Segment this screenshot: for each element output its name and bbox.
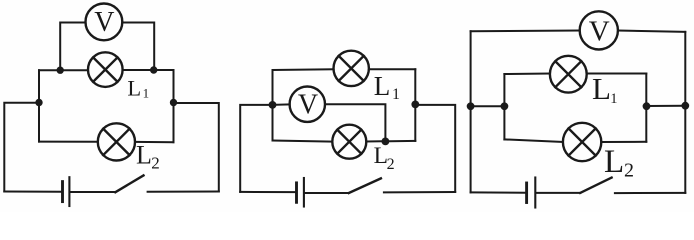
- voltmeter V: [86, 4, 123, 41]
- voltmeter V: [580, 11, 618, 49]
- svg-text:L: L: [136, 140, 152, 169]
- node: on right rail: [681, 102, 689, 110]
- wire: L2 branch right: [135, 141, 174, 143]
- wire: L1 branch right: [587, 73, 647, 75]
- switch S: blade: [349, 178, 381, 193]
- svg-text:L: L: [592, 71, 611, 106]
- wire: bottom left to battery: [4, 191, 60, 193]
- battery cell: short thick plate: [295, 183, 298, 202]
- lamp L2: [563, 123, 601, 161]
- wire: right branch vertical: [414, 69, 416, 141]
- svg-text:2: 2: [624, 159, 634, 181]
- wire: battery to switch: [305, 192, 349, 194]
- battery cell: long thin plate: [303, 178, 305, 207]
- wire: left branch vertical: [503, 74, 505, 139]
- wire: voltmeter branch left: [60, 23, 85, 71]
- svg-text:2: 2: [151, 154, 160, 173]
- wire: L1 branch right: [369, 68, 415, 70]
- wire: voltmeter lead left: [273, 103, 290, 106]
- node: right junction: [170, 99, 177, 106]
- lamp L2: [98, 123, 135, 160]
- svg-text:L: L: [604, 144, 624, 180]
- wire: right rail: [415, 105, 455, 192]
- wire: L2 branch left: [273, 141, 333, 142]
- node: V tap on L2 branch: [382, 138, 390, 146]
- wire: mid wire right: [646, 105, 685, 107]
- wire: left rail: [4, 103, 39, 192]
- svg-text:L: L: [374, 71, 391, 101]
- svg-text:V: V: [94, 7, 114, 38]
- wire: L1 branch left: [39, 69, 88, 71]
- wire: L2 branch left: [504, 139, 563, 142]
- lamp L1: [88, 52, 123, 87]
- wire: battery to switch: [70, 191, 115, 193]
- battery cell: long thin plate: [534, 178, 536, 208]
- wire: L1 branch left: [504, 73, 550, 76]
- lamp L2: [332, 125, 366, 159]
- wire: right rail: [684, 32, 686, 193]
- node: on left branch vertical: [501, 102, 509, 110]
- wire: switch right to right rail: [148, 191, 219, 193]
- wire: voltmeter branch right: [122, 23, 154, 70]
- node: right junction: [411, 101, 419, 109]
- switch S: blade: [115, 175, 143, 192]
- svg-text:V: V: [589, 15, 610, 47]
- wire: L2 branch left: [39, 141, 98, 143]
- node: V left tap on L1 branch: [57, 67, 64, 74]
- node: left junction: [269, 101, 277, 109]
- wire: L2 branch right: [601, 141, 646, 143]
- wire: battery to switch: [536, 192, 580, 194]
- svg-text:2: 2: [387, 156, 395, 173]
- node: on right branch vertical: [643, 102, 651, 110]
- battery cell: short thick plate: [525, 183, 528, 203]
- node: V right tap on L1 branch: [150, 66, 157, 73]
- wire: right rail: [174, 103, 219, 191]
- node: left junction: [35, 99, 42, 106]
- wire: right branch vertical: [173, 70, 175, 142]
- wire: bottom left to battery: [240, 191, 295, 193]
- wire: voltmeter branch left: [471, 30, 580, 33]
- wire: L1 branch left: [273, 68, 334, 71]
- lamp L1: [334, 51, 369, 86]
- wire: left rail: [240, 105, 272, 192]
- wire: bottom left to battery: [471, 191, 525, 193]
- wire: switch right to right rail: [384, 191, 455, 193]
- wire: left branch vertical: [272, 70, 274, 141]
- svg-text:1: 1: [610, 91, 617, 107]
- svg-text:1: 1: [143, 86, 150, 101]
- wire: mid wire left: [471, 105, 505, 107]
- voltmeter V: [290, 87, 325, 122]
- node: on left rail: [467, 102, 475, 110]
- svg-text:V: V: [298, 90, 318, 121]
- wire: L1 branch right: [123, 69, 174, 71]
- wire: voltmeter lead right down to L2: [325, 104, 385, 141]
- svg-text:L: L: [127, 75, 141, 100]
- battery cell: long thin plate: [68, 177, 70, 206]
- wire: switch right to right rail: [615, 192, 685, 194]
- wire: right branch vertical: [645, 74, 647, 142]
- lamp L1: [550, 56, 587, 93]
- wire: voltmeter branch right: [618, 31, 685, 32]
- switch S: blade: [580, 178, 611, 193]
- wire: left rail: [470, 31, 472, 192]
- svg-text:1: 1: [392, 86, 400, 103]
- wire: L2 branch right: [366, 140, 415, 143]
- battery cell: short thick plate: [61, 182, 64, 202]
- wire: left branch vertical: [38, 70, 40, 141]
